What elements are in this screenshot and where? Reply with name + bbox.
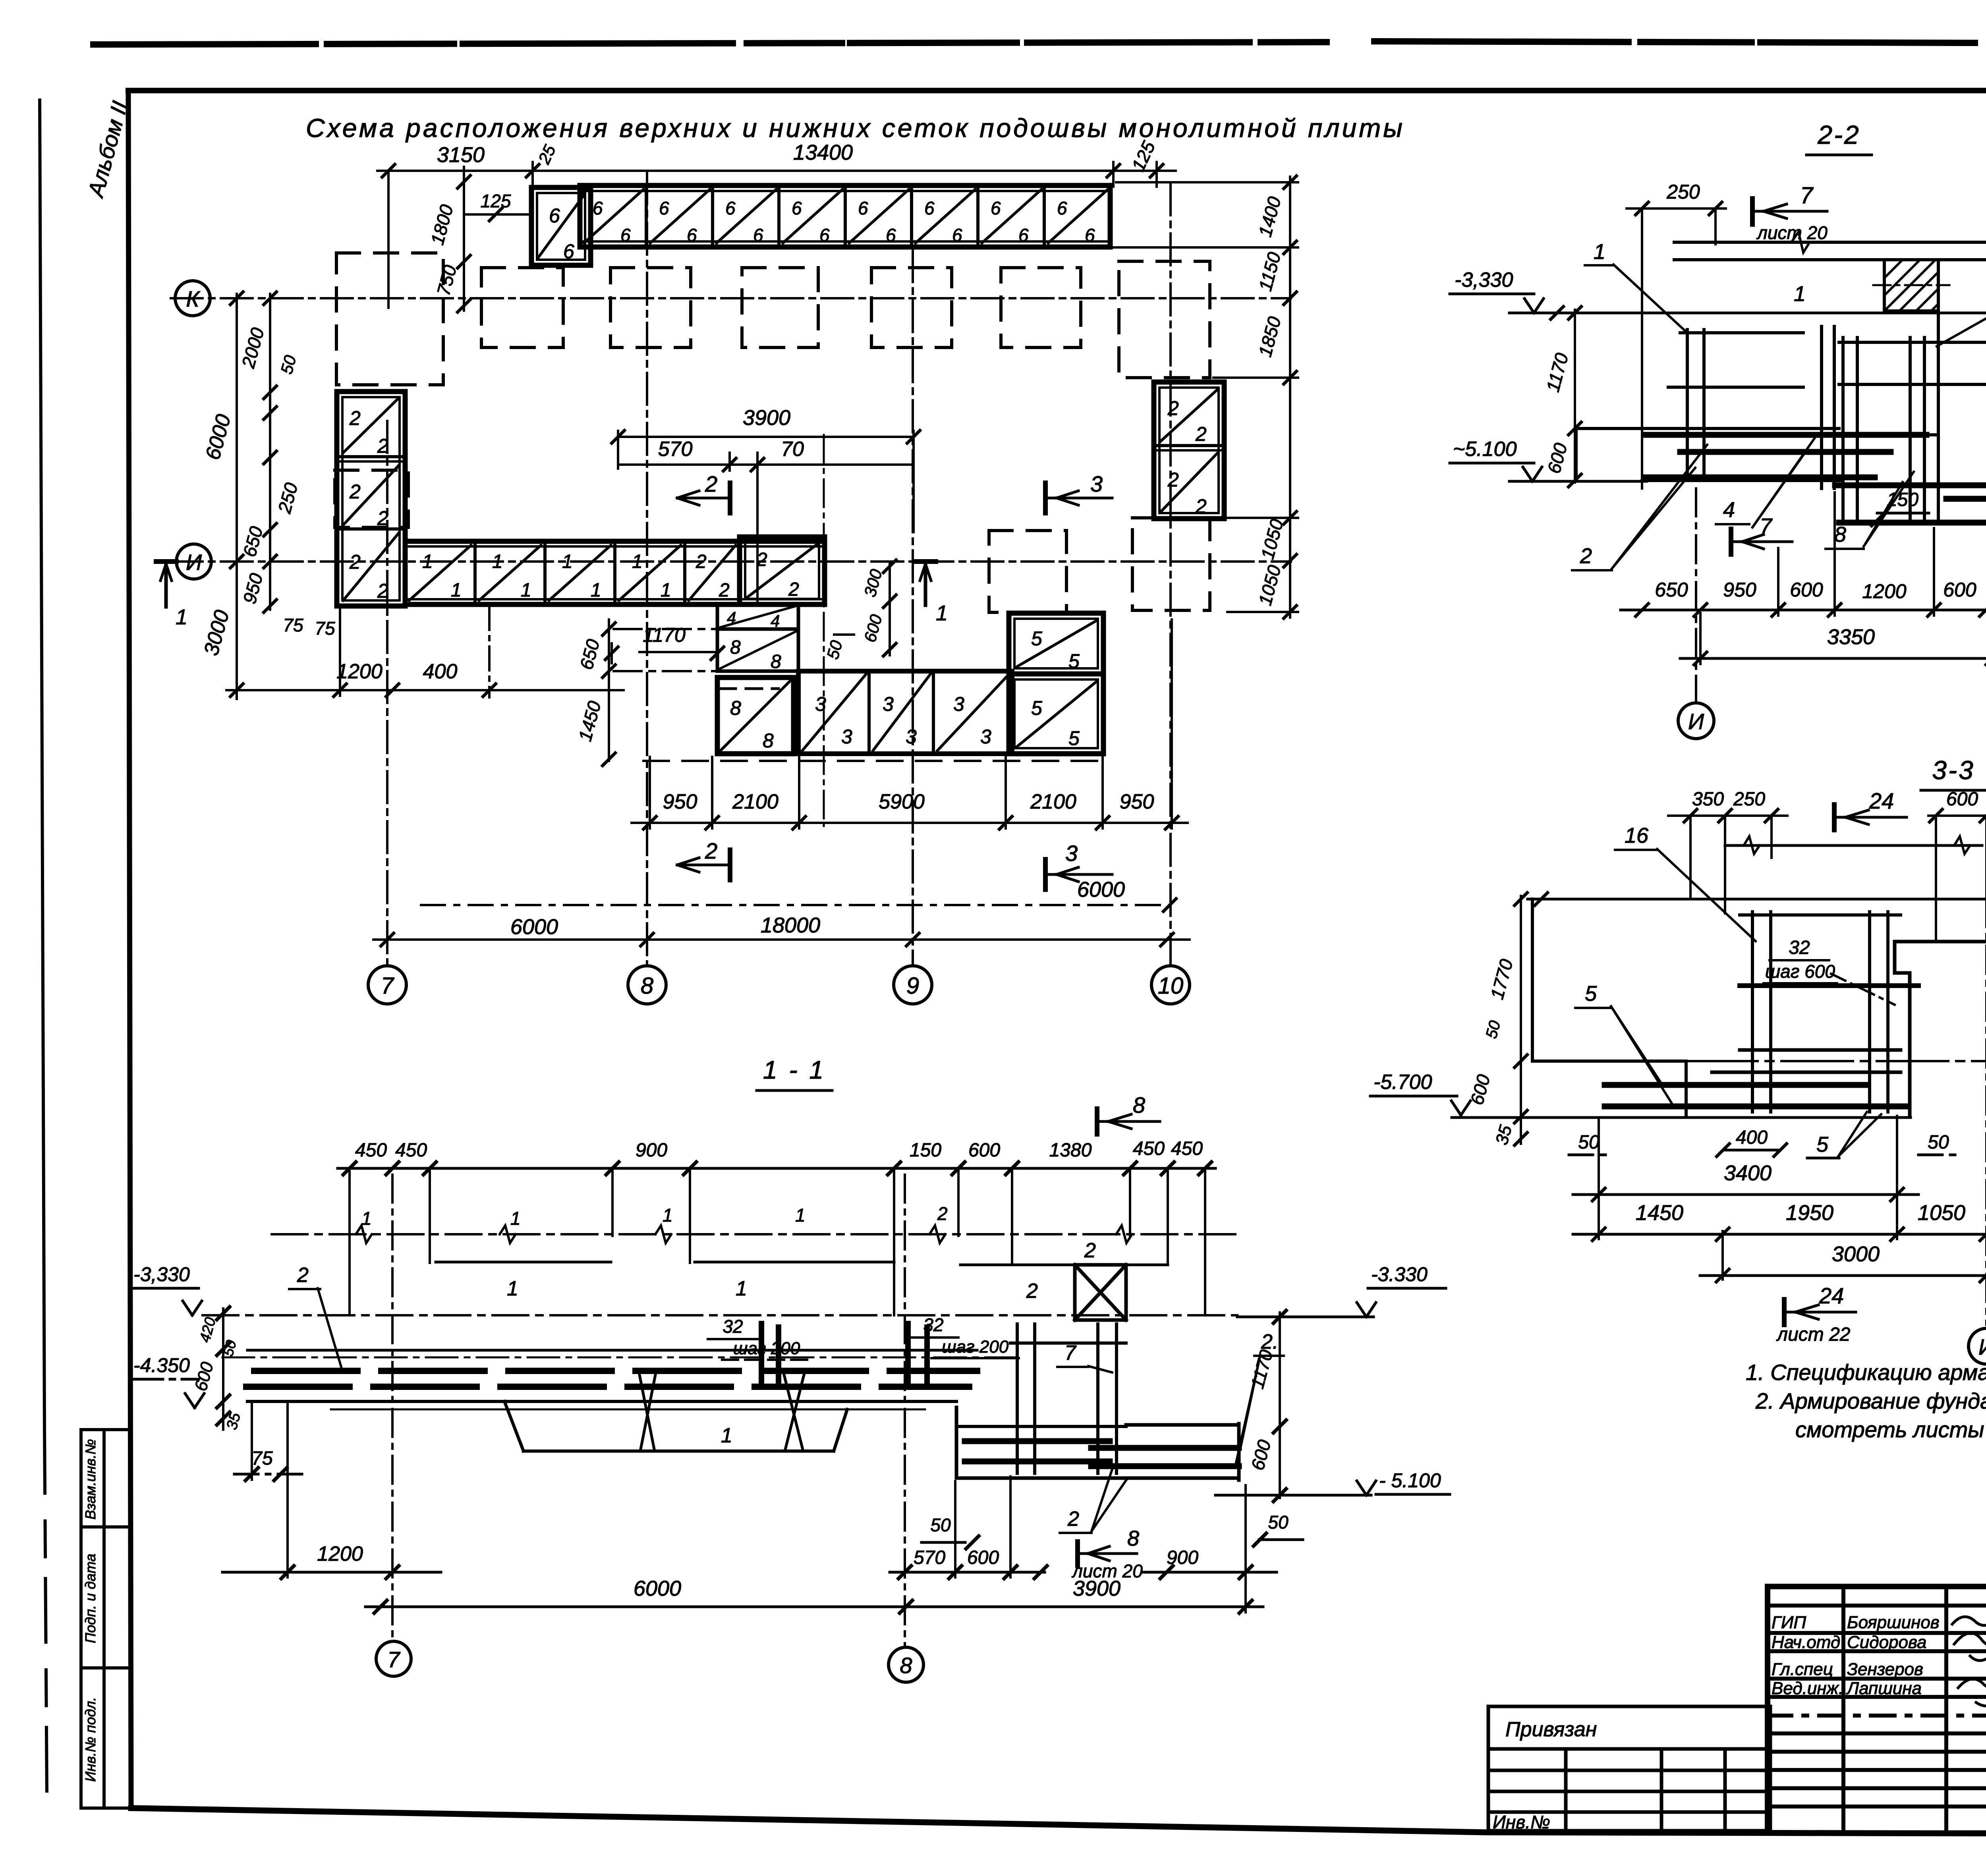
slab bottom bars sec1 [246,1384,969,1390]
svg-text:150: 150 [910,1140,941,1161]
left excavation profile sec3 [1452,899,1911,1117]
svg-text:6: 6 [952,225,962,245]
svg-text:1050: 1050 [1257,517,1287,562]
left margin stamp boxes [81,1430,131,1808]
svg-text:2: 2 [349,407,361,429]
svg-text:6: 6 [1057,198,1067,218]
svg-text:6000: 6000 [634,1577,681,1600]
axis K circle [175,281,210,316]
svg-text:3000: 3000 [1832,1242,1880,1266]
axis 10 line [1169,183,1172,966]
svg-text:6000: 6000 [510,915,558,939]
label 5 left leader sec3 [1575,982,1672,1104]
svg-text:2-2: 2-2 [1817,120,1860,149]
axis I circle [176,544,211,579]
svg-text:2: 2 [719,580,730,601]
level -3.330 sec1 left [131,1263,1237,1315]
svg-text:5: 5 [1031,627,1042,650]
svg-text:3: 3 [1065,841,1078,866]
svg-text:125: 125 [1128,138,1159,174]
svg-text:2: 2 [1167,469,1179,491]
svg-text:6: 6 [753,225,763,245]
section marker 3 bottom [1045,841,1112,890]
svg-text:Инв.№ подл.: Инв.№ подл. [82,1697,99,1781]
axis 7 line [386,421,388,966]
svg-text:8: 8 [1834,523,1846,546]
svg-text:Взам.инв.№: Взам.инв.№ [82,1439,99,1520]
left footing outline sec2 [1576,428,1843,481]
svg-text:1: 1 [176,605,187,629]
svg-text:3: 3 [980,726,991,748]
svg-text:-3.330: -3.330 [1371,1263,1428,1285]
svg-text:Гл.спец: Гл.спец [1772,1660,1833,1679]
svg-text:450: 450 [1171,1138,1203,1159]
second mesh line sec1 [436,1262,1168,1303]
svg-text:1200: 1200 [336,660,383,683]
svg-text:3150: 3150 [437,143,485,167]
top dimension line 3150 / 13400 [377,138,1176,308]
label 4 leader sec2 [1716,438,1814,527]
label 2 leader top left sec1 [289,1264,342,1371]
mesh row panels 3 [798,671,1012,754]
svg-text:950: 950 [663,790,697,813]
svg-text:150: 150 [1887,489,1918,510]
svg-text:8: 8 [730,697,741,719]
sheet left outer edge [40,100,47,1795]
axis 7 circle [368,966,406,1004]
svg-text:6: 6 [886,225,896,245]
svg-text:50: 50 [1928,1132,1949,1153]
svg-text:2: 2 [705,471,717,496]
level -3.330 sec2 [1450,268,1986,319]
svg-text:2100: 2100 [1030,790,1076,813]
svg-text:-5.700: -5.700 [1374,1071,1432,1094]
dim 1200 sec1 [222,1404,441,1579]
bottom-left dim 1200 400 [226,606,624,697]
cut floor line sec3 [1725,836,1982,854]
svg-text:1050: 1050 [1918,1201,1965,1225]
section marker 24 bottom [1776,1283,1856,1345]
svg-text:570: 570 [914,1547,945,1568]
svg-text:-3,330: -3,330 [133,1263,190,1285]
svg-text:2: 2 [1026,1280,1038,1303]
svg-text:5900: 5900 [879,790,925,813]
svg-text:1800: 1800 [427,202,457,247]
svg-text:1: 1 [736,1277,747,1300]
svg-text:3350: 3350 [1827,625,1875,649]
label 2 bottom leader sec1 [1060,1469,1126,1533]
dims 6000 3900 sec1 [365,1577,1263,1613]
dim 3000 sec3 [1700,1242,1986,1282]
right footing sec1 [956,1407,1239,1480]
axis 8 sec1 [889,1175,923,1682]
svg-text:6: 6 [1085,225,1095,245]
svg-text:1150: 1150 [1255,250,1285,293]
svg-text:50: 50 [1268,1512,1289,1532]
svg-text:3: 3 [953,693,964,715]
svg-text:1: 1 [422,551,433,572]
label 9 leader sec2 [1937,236,1986,346]
mesh panel 5 upper [1009,613,1103,674]
svg-text:350: 350 [1692,789,1724,810]
label 32 шаг 200 second [908,1314,1019,1358]
mesh strip panels 6 [580,185,1110,247]
dim 250 [1627,181,1726,488]
svg-text:6000: 6000 [201,412,236,462]
svg-text:2: 2 [695,551,707,572]
svg-text:450: 450 [355,1140,387,1161]
svg-text:1050: 1050 [1254,563,1285,608]
svg-text:6: 6 [792,198,802,218]
svg-text:шаг 600: шаг 600 [1765,961,1835,982]
mesh column panels 2 (left) [337,392,405,606]
rebar cage sec3 [1712,912,1918,1112]
svg-text:8: 8 [771,651,781,672]
slab top bars sec1 [254,1368,977,1374]
svg-text:3-3: 3-3 [1932,755,1974,785]
svg-text:ГИП: ГИП [1772,1613,1806,1632]
label 16 leader sec3 [1615,824,1756,941]
column 2-2 [1938,260,1986,521]
svg-text:1: 1 [492,551,503,572]
mesh panel 2 end of row [740,537,825,604]
svg-text:2: 2 [937,1203,948,1224]
dim 650 1450 left of panel 8 [574,620,715,766]
section 3-3 title [1921,755,1986,790]
svg-text:8: 8 [1133,1092,1145,1117]
svg-text:950: 950 [239,571,267,606]
svg-text:1: 1 [507,1277,518,1300]
svg-text:7: 7 [387,1647,400,1672]
svg-text:Лапшина: Лапшина [1846,1679,1922,1698]
svg-text:24: 24 [1819,1283,1844,1308]
mesh panel 6 big [531,187,591,265]
svg-text:6: 6 [819,225,830,245]
axis I line [171,560,1291,563]
label 1 leader sec2 [1585,240,1688,334]
svg-text:3900: 3900 [743,406,790,430]
axis K line [171,297,1291,299]
svg-text:Подп. и дата: Подп. и дата [82,1554,99,1643]
svg-text:2: 2 [1580,544,1592,568]
svg-text:3900: 3900 [1073,1577,1121,1600]
dashed foundation outline left [336,253,443,385]
svg-text:1: 1 [795,1205,806,1226]
left rebar cage sec2 [1668,326,1834,488]
svg-text:32: 32 [723,1316,743,1337]
dim 1170 [605,624,724,663]
svg-text:70: 70 [781,438,804,461]
svg-text:1: 1 [1594,240,1605,264]
svg-text:400: 400 [423,660,458,683]
mesh pit trapezoid sec1 [504,1375,847,1451]
slab thick bars sec2 [1644,435,1926,477]
svg-text:Нач.отд: Нач.отд [1772,1633,1840,1652]
svg-text:650: 650 [576,637,603,672]
svg-text:- 5.100: - 5.100 [1379,1469,1441,1492]
dim 3400 sec3 [1573,1116,1918,1239]
svg-text:смотреть листы 12,13,16,17.: смотреть листы 12,13,16,17. [1795,1417,1986,1442]
svg-text:32: 32 [923,1314,943,1335]
svg-text:50: 50 [1482,1019,1504,1040]
svg-text:~5.100: ~5.100 [1453,438,1517,461]
section marker 3 top [1045,471,1112,513]
hidden foundation edge dashed [643,760,1108,762]
svg-text:8: 8 [730,637,741,658]
svg-text:900: 900 [636,1140,667,1161]
left vertical dim sec2: 1170 600 [1542,307,1581,487]
svg-text:600: 600 [191,1360,217,1393]
svg-text:6000: 6000 [1077,878,1125,901]
svg-text:1850: 1850 [1254,314,1285,359]
svg-text:3: 3 [883,693,894,715]
dashed footing lower right [1132,518,1210,610]
svg-text:950: 950 [1120,790,1154,813]
svg-text:18000: 18000 [761,913,820,937]
svg-text:5: 5 [1031,697,1042,719]
section 2-2 title [1806,120,1872,155]
upper mesh chain line sec1 [272,1203,1237,1243]
axis 7 sec1 [376,1175,411,1676]
svg-text:6: 6 [858,198,868,218]
column cage bars sec1 [965,1441,1239,1466]
label 7 sec1 [1057,1341,1112,1372]
bottom dim 6000 / 18000 [373,878,1190,946]
mesh column panels 2 (right) [1154,382,1224,519]
svg-text:И: И [1978,1334,1986,1359]
svg-text:1: 1 [936,601,948,625]
top dims sec1 [338,1138,1215,1315]
svg-text:3: 3 [841,726,852,748]
dashed footing mid right [989,531,1066,612]
svg-text:3400: 3400 [1724,1161,1772,1185]
svg-text:6: 6 [593,198,603,218]
svg-text:2: 2 [349,481,361,503]
svg-text:1450: 1450 [574,699,605,743]
svg-text:50: 50 [823,638,846,661]
left dim line 6000 3000 [200,292,243,699]
section marker 1 left [156,562,187,629]
svg-text:600: 600 [1466,1072,1494,1107]
bottom small dims sec1: 50 570 600 900 50 [890,1476,1303,1612]
svg-text:К: К [186,286,200,311]
dim 3350 sec2 [1680,524,1986,665]
svg-text:Инв.№: Инв.№ [1493,1812,1550,1832]
level -5.100 sec1 right [1215,1469,1450,1502]
svg-text:3000: 3000 [200,608,234,658]
svg-text:1: 1 [510,1208,521,1229]
svg-text:50: 50 [277,353,300,376]
svg-text:5: 5 [1816,1133,1829,1156]
svg-text:1: 1 [663,1205,673,1226]
left vertical dim sec1: 420 50 600 35 [191,1307,244,1432]
right vertical dim sec1: 1170 600 [1247,1312,1286,1498]
svg-text:1770: 1770 [1486,957,1517,1002]
bottom dims sec2: 650 950 600 1200 600 1100 [1621,492,1986,616]
svg-text:1380: 1380 [1049,1140,1092,1161]
dashed column footings row [481,261,1210,378]
label 32 шаг 600 sec3 [1764,937,1895,1005]
svg-text:Сидорова: Сидорова [1847,1633,1926,1652]
axis 8 line [646,173,648,966]
label 2. right sec1 [1235,1330,1284,1466]
axis 10 circle [1151,966,1190,1004]
svg-text:75: 75 [251,1448,273,1469]
svg-text:32: 32 [1789,937,1810,958]
svg-text:1: 1 [361,1208,372,1229]
svg-text:1170: 1170 [1542,351,1573,394]
svg-text:Альбом II: Альбом II [83,98,132,201]
svg-text:2. Армирование фундаментов под: 2. Армирование фундаментов под колонны к… [1755,1388,1986,1413]
svg-text:Привязан: Привязан [1505,1718,1597,1741]
title block: main stamp [1768,1586,1986,1833]
svg-text:2000: 2000 [238,325,268,371]
svg-text:250: 250 [1733,789,1765,810]
svg-text:5: 5 [1068,650,1080,672]
mesh panel 8 big [717,677,794,754]
svg-text:шаг 200: шаг 200 [733,1339,800,1358]
svg-text:600: 600 [1946,789,1978,810]
dims 1450 1950 1050 750 sec3 [1573,1117,1986,1280]
svg-text:75: 75 [283,615,303,635]
svg-text:4: 4 [727,608,736,627]
svg-text:3: 3 [1090,471,1103,496]
X-box panel 2 sec1 [1075,1239,1126,1320]
level -5.700 sec3 [1370,1071,1470,1115]
svg-text:1170: 1170 [643,624,686,646]
svg-text:Вед.инж.: Вед.инж. [1772,1679,1843,1698]
svg-text:6: 6 [549,205,560,227]
svg-text:450: 450 [395,1140,427,1161]
svg-text:1200: 1200 [1862,580,1906,602]
svg-text:5: 5 [1068,727,1080,749]
title block: привязан table [1488,1706,1770,1832]
svg-text:1: 1 [661,580,671,601]
svg-text:2: 2 [705,838,717,863]
svg-text:570: 570 [658,438,693,461]
svg-text:И: И [1688,709,1704,734]
svg-text:1: 1 [521,580,531,601]
svg-text:6: 6 [1018,225,1029,245]
left vertical dim sec3: 1770 600 35 [1466,893,1527,1147]
svg-text:8: 8 [641,973,653,999]
svg-text:6: 6 [991,198,1001,218]
svg-text:6: 6 [924,198,935,218]
svg-text:2: 2 [1067,1507,1079,1531]
axis 9 line [912,250,914,966]
svg-text:650: 650 [1655,579,1688,601]
svg-text:420: 420 [197,1316,219,1344]
small dims 300 600 50 right of panel 4 [823,560,896,661]
svg-text:600: 600 [968,1140,1000,1161]
svg-text:8: 8 [900,1653,912,1678]
svg-text:450: 450 [1133,1138,1165,1159]
svg-text:750: 750 [433,263,460,298]
section marker 1 middle [916,562,948,625]
label 8 leader sec2 [1826,472,1914,549]
section marker 24 top [1834,788,1907,830]
podbetonka block sec3 [1895,942,1986,1116]
svg-text:50: 50 [1578,1132,1600,1153]
svg-text:600: 600 [1943,579,1976,601]
svg-text:7: 7 [1064,1341,1077,1365]
svg-text:9: 9 [906,973,919,999]
bottom small dims sec3 [1569,1112,1962,1158]
svg-text:2: 2 [1084,1239,1096,1262]
mesh row panels 1 [405,541,825,604]
mesh panel 4 [717,604,798,630]
svg-text:1400: 1400 [1254,194,1285,239]
svg-text:75: 75 [315,618,335,639]
svg-text:2100: 2100 [732,790,779,813]
section 1-1 title [757,1056,832,1090]
svg-text:13400: 13400 [793,141,853,164]
svg-text:2: 2 [788,579,799,600]
svg-text:-3,330: -3,330 [1455,268,1513,291]
svg-text:10: 10 [1158,973,1184,999]
svg-text:2: 2 [377,507,388,529]
svg-text:6: 6 [659,198,669,218]
svg-text:2: 2 [377,580,388,602]
section marker 7 top [1752,183,1828,243]
notes [1746,1360,1986,1442]
svg-text:4: 4 [1723,498,1735,522]
mesh panel 8 upper [717,629,798,672]
label 32 шаг 200 first [708,1316,811,1360]
svg-text:1450: 1450 [1636,1201,1683,1225]
svg-text:600: 600 [860,612,886,644]
svg-text:6: 6 [687,225,697,245]
svg-text:8: 8 [763,730,774,752]
svg-text:7: 7 [1760,513,1773,538]
svg-text:300: 300 [860,567,886,599]
svg-text:50: 50 [930,1515,951,1535]
sheet top torn edge [93,41,1986,44]
svg-text:250: 250 [1666,181,1700,203]
svg-text:Бояршинов: Бояршинов [1847,1613,1940,1632]
svg-text:600: 600 [1790,579,1823,601]
svg-text:650: 650 [239,524,267,559]
svg-text:16: 16 [1625,824,1649,847]
svg-text:-4.350: -4.350 [133,1354,190,1376]
mesh panel 5 lower [1009,674,1103,754]
svg-text:1: 1 [632,551,643,572]
svg-text:600: 600 [1543,441,1571,476]
svg-text:Схема расположения верхних и н: Схема расположения верхних и нижних сето… [306,113,1405,143]
slab band sec1 [222,1350,1017,1409]
svg-text:24: 24 [1869,788,1894,813]
svg-text:8: 8 [1127,1527,1139,1550]
section marker 8 top [1097,1092,1160,1134]
strip left dim 1800 750 125 [427,167,531,312]
svg-text:5: 5 [1585,982,1597,1006]
axis I sec3 [1969,899,1986,1364]
svg-text:И: И [186,550,202,575]
svg-text:1: 1 [562,551,573,572]
svg-text:2: 2 [1195,495,1207,517]
svg-text:600: 600 [1247,1438,1275,1473]
svg-text:1: 1 [591,580,601,601]
level -3.330 sec1 right [1237,1263,1446,1323]
svg-text:Зензеров: Зензеров [1847,1660,1923,1679]
svg-text:2: 2 [297,1264,309,1287]
dowel bars sec1 [761,1324,927,1386]
level -5.100 sec3 [1686,1017,1986,1061]
svg-text:1: 1 [721,1424,732,1447]
svg-text:7: 7 [1800,183,1814,208]
svg-text:лист 22: лист 22 [1776,1324,1850,1345]
svg-text:шаг 200: шаг 200 [942,1337,1009,1357]
